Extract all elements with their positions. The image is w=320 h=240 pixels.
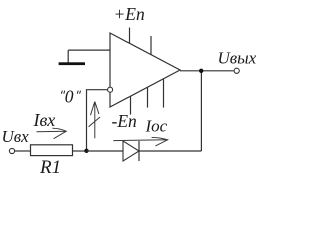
diode VD1: [123, 141, 139, 161]
wire: feedback vertical up to output node: [200, 71, 202, 151]
inverting input bubble: [108, 87, 113, 92]
terminal Uvx: [9, 148, 14, 153]
node B output junction dot: [199, 69, 203, 73]
pin: +supply pin 1 (top): [129, 28, 131, 44]
pin: bottom middle: [147, 87, 149, 108]
svg-text:+En: +En: [114, 4, 145, 24]
svg-text:R1: R1: [39, 157, 61, 178]
resistor R1: [31, 145, 73, 156]
node A junction dot: [84, 149, 88, 153]
diode VD1 cathode bar: [138, 141, 140, 161]
wire: non-inverting input to op-amp: [68, 50, 110, 62]
wire: diode cathode to feedback corner: [139, 150, 201, 152]
svg-text:0: 0: [65, 87, 74, 107]
ground: [59, 62, 85, 65]
arrow: Ivx current arrow: [37, 128, 67, 139]
arrow: zero-voltage crossed arrow: [89, 102, 100, 139]
wire: node A to diode anode: [87, 150, 124, 152]
op-amp U1: [110, 33, 180, 107]
wire: Uvx terminal to R1: [15, 150, 31, 152]
svg-text:Iос: Iос: [145, 116, 168, 135]
svg-text:Uвх: Uвх: [2, 127, 30, 146]
wire: inverting input from node A up to bubble: [87, 90, 108, 151]
pin: bottom right: [163, 79, 165, 108]
pin: +supply pin 2 (top): [150, 36, 152, 55]
arrow: Ioc current arrow: [113, 137, 167, 146]
terminal Uvyx: [234, 68, 239, 73]
svg-text:Uвых: Uвых: [218, 49, 257, 68]
svg-text:-En: -En: [112, 111, 138, 131]
wire: op-amp output to Uvyx terminal: [180, 70, 234, 72]
svg-text:Iвх: Iвх: [33, 110, 56, 130]
pin: -supply pin (bottom left): [130, 96, 132, 115]
wire: R1 to node A: [73, 150, 87, 152]
